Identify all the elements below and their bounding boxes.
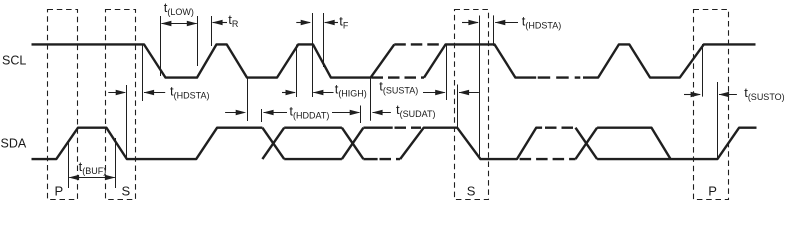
start condition box S1: [106, 10, 136, 200]
t(SUDAT) marker line right at SCL rise: [370, 78, 372, 121]
svg-text:t(BUF): t(BUF): [79, 159, 107, 176]
t(SUSTA) arrow pointing left: [459, 92, 479, 94]
t(HDDAT) arrow pointing right: [332, 112, 359, 114]
t(HDDAT) arrow pointing left: [264, 112, 288, 114]
tR marker line: [211, 16, 213, 46]
SDA eye 2 low line to stop: [597, 128, 756, 159]
svg-text:t(SUSTA): t(SUSTA): [379, 79, 418, 96]
stop condition box P1: [48, 10, 78, 200]
SCL dashed low segment 2: [536, 76, 580, 78]
SDA dashed high break: [395, 126, 422, 128]
t(SUSTO) arrow pointing right: [684, 94, 700, 96]
t(BUF) marker line left: [68, 140, 70, 188]
svg-text:SCL: SCL: [2, 53, 26, 67]
t(HDSTA) second marker line left: [479, 16, 481, 159]
t(SUSTA) arrow pointing right: [423, 92, 445, 94]
t(HDDAT) marker line right at SDA change start: [261, 109, 263, 122]
t(LOW) marker line right: [197, 16, 199, 66]
t(BUF) double arrow: [69, 177, 115, 179]
stop condition box P2: [694, 10, 729, 200]
SDA crossover X1 falling: [262, 128, 284, 159]
t(LOW) double arrow: [162, 23, 197, 25]
t(SUSTO) marker line left: [702, 44, 704, 97]
SDA crossover X3 rising: [576, 128, 598, 159]
SDA eye 2 high line with stop fall: [597, 128, 671, 159]
t(SUSTA) marker line left: [446, 45, 448, 100]
t(SUSTO) marker line right: [717, 82, 719, 158]
SDA waveform solid left section: [32, 128, 263, 159]
SCL waveform solid left section: [32, 44, 395, 77]
tF marker line right: [323, 13, 325, 67]
t(HDSTA) first arrow pointing right: [108, 92, 125, 94]
t(HDSTA) first arrow pointing left: [144, 92, 165, 94]
t(HDSTA) first marker line left: [126, 85, 128, 158]
svg-text:tR: tR: [228, 12, 239, 29]
t(HDSTA) second arrow pointing right: [462, 22, 478, 24]
SCL dashed low break segment: [372, 76, 425, 78]
SCL waveform solid middle section: [424, 44, 536, 77]
svg-text:t(HDSTA): t(HDSTA): [170, 83, 209, 100]
t(HIGH) arrow pointing right: [282, 92, 295, 94]
SDA low solid after X2: [363, 158, 377, 160]
t(HIGH) marker line left: [296, 45, 298, 98]
SDA eye low line: [284, 158, 342, 160]
SCL dashed high break segment: [394, 43, 443, 45]
t(LOW) marker line left: [160, 16, 162, 76]
t(HDDAT) right and t(SUDAT) left marker line: [360, 106, 362, 124]
t(SUSTA) marker line right at SDA fall: [457, 85, 459, 128]
svg-text:t(LOW): t(LOW): [164, 0, 194, 17]
t(HDSTA) second marker line right: [493, 15, 495, 46]
SDA dashed high break 2: [545, 126, 574, 128]
svg-text:SDA: SDA: [1, 136, 27, 150]
tF arrow pointing right: [296, 22, 310, 24]
svg-text:S: S: [467, 184, 476, 199]
SCL waveform solid right section: [583, 44, 756, 77]
svg-text:t(HDDAT): t(HDDAT): [289, 103, 329, 120]
t(HDSTA) first marker line right: [142, 45, 144, 101]
svg-text:P: P: [55, 184, 64, 199]
tR arrow pointing left: [213, 22, 228, 24]
t(HDSTA) second arrow pointing left: [495, 22, 518, 24]
svg-text:t(HIGH): t(HIGH): [335, 82, 367, 99]
svg-text:t(SUSTO): t(SUSTO): [744, 85, 784, 102]
t(BUF) marker line right: [115, 138, 117, 188]
SDA crossover X2 falling: [342, 128, 364, 159]
svg-text:S: S: [122, 184, 131, 199]
SDA crossover X1 rising: [262, 128, 284, 159]
svg-text:t(HDSTA): t(HDSTA): [522, 14, 561, 31]
t(HIGH) arrow pointing left: [313, 92, 333, 94]
tF arrow pointing left: [325, 22, 338, 24]
t(HDDAT) outside arrow pointing right: [225, 112, 244, 114]
t(HDDAT) marker line left at SCL fall end: [247, 78, 249, 121]
SDA crossover X3 falling: [576, 128, 598, 159]
t(HIGH) right and tF left marker line: [312, 13, 314, 97]
SDA dashed low break: [380, 158, 401, 160]
svg-text:t(SUDAT): t(SUDAT): [396, 102, 435, 119]
SDA crossover X2 rising: [342, 128, 364, 159]
svg-text:tF: tF: [339, 13, 349, 30]
SDA rise into repeated start: [400, 128, 542, 159]
SDA dashed low break 2: [520, 158, 576, 160]
SDA high solid after X2: [363, 126, 392, 128]
repeated start condition box S2: [455, 10, 489, 200]
t(SUDAT) arrow pointing left: [373, 112, 391, 114]
t(SUSTO) arrow pointing left: [719, 94, 737, 96]
SDA eye high line: [284, 126, 342, 128]
svg-text:P: P: [708, 184, 717, 199]
